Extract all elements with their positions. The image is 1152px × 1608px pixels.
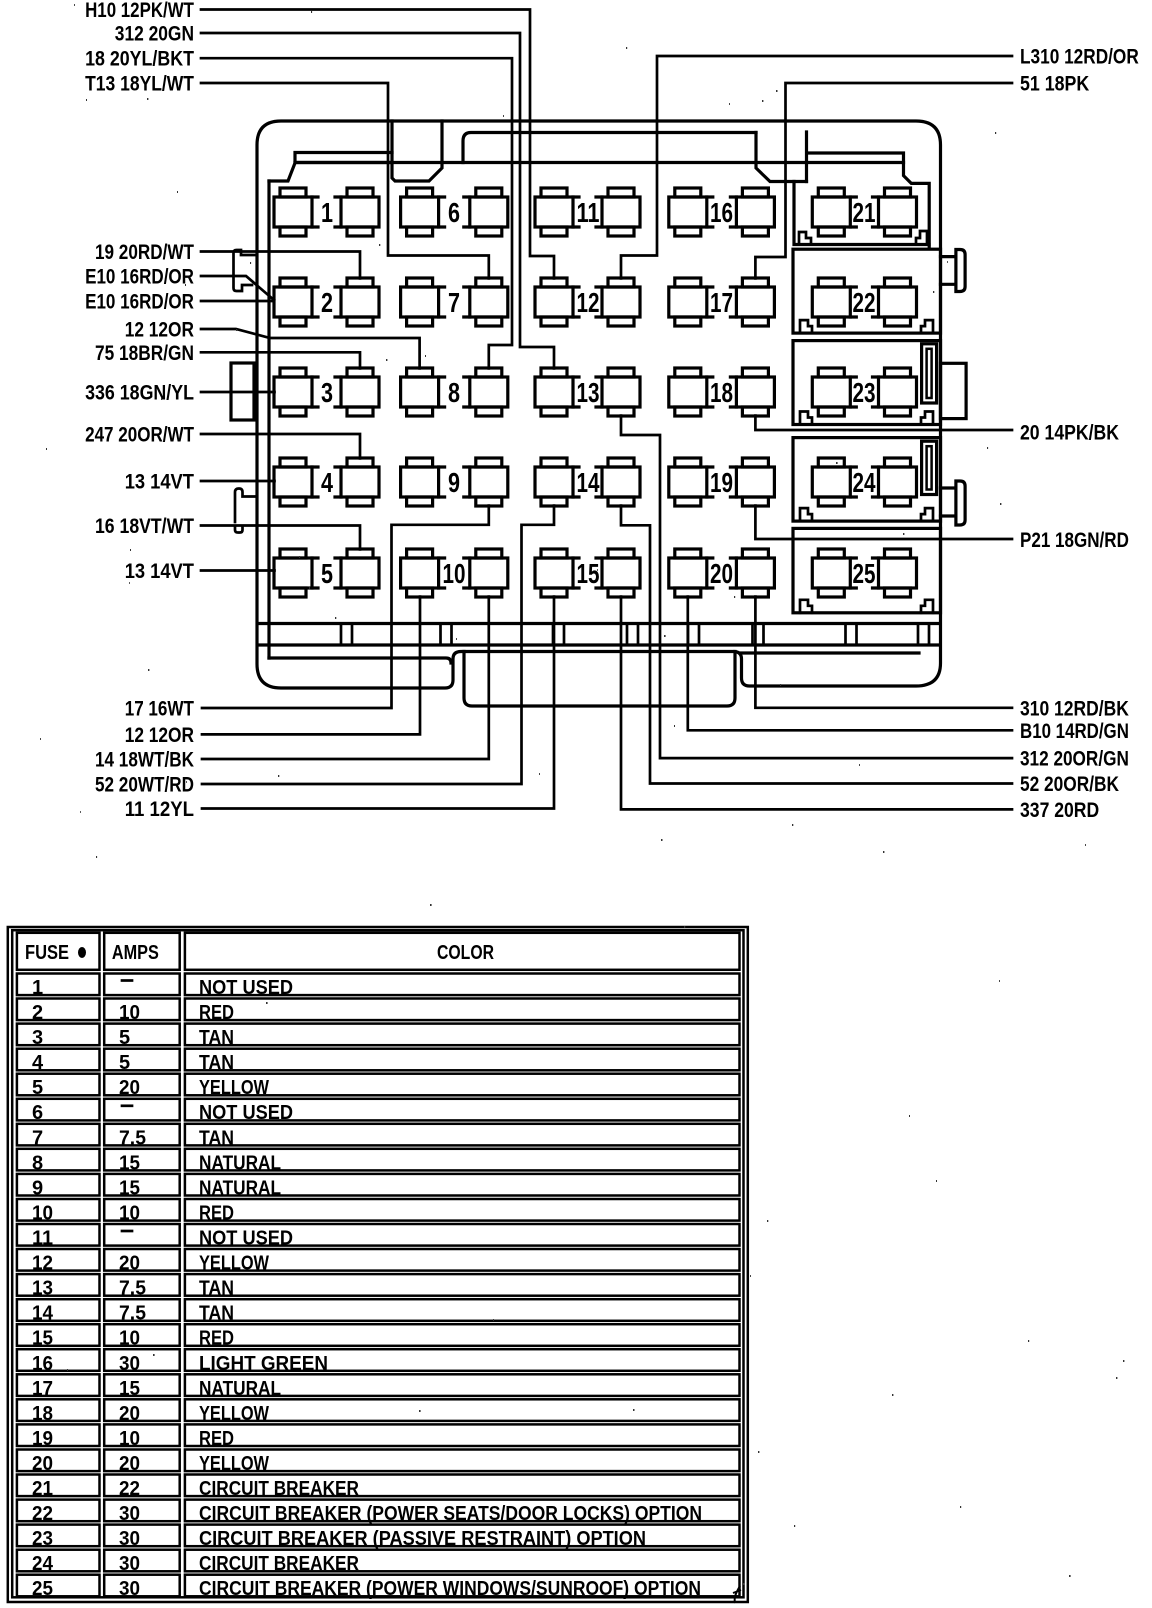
wire 18 20YL/BKT to fuse 8 right: [201, 58, 512, 368]
svg-text:18: 18: [32, 1403, 53, 1425]
svg-text:P21 18GN/RD: P21 18GN/RD: [1020, 529, 1129, 552]
fuse 9: [401, 458, 508, 506]
label 13 14VT (left, y=570.5): [125, 560, 194, 583]
bottom inner ledge left: [269, 658, 451, 663]
wire 52 20WT/RD from fuse 14 left: [202, 506, 554, 784]
svg-text:21: 21: [853, 197, 876, 228]
label 18 20YL/BKT (left, y=58.2): [85, 48, 194, 71]
svg-text:13 14VT: 13 14VT: [125, 471, 194, 494]
connector box at 336 label: [231, 363, 254, 420]
fuse 12: [535, 278, 640, 326]
svg-text:14: 14: [32, 1303, 54, 1325]
wire E10 16RD/OR upper to fuse 2: [201, 276, 274, 300]
svg-text:CIRCUIT BREAKER (POWER SEATS/D: CIRCUIT BREAKER (POWER SEATS/DOOR LOCKS)…: [199, 1503, 702, 1525]
svg-text:75 18BR/GN: 75 18BR/GN: [95, 342, 194, 365]
fuse 13: [535, 368, 640, 416]
svg-text:L310 12RD/OR: L310 12RD/OR: [1020, 46, 1139, 69]
label B10 14RD/GN (right, y=730.3): [1020, 720, 1129, 743]
side tab between breakers 21 and 22: [941, 250, 966, 292]
svg-text:CIRCUIT BREAKER: CIRCUIT BREAKER: [199, 1553, 359, 1575]
svg-text:18 20YL/BKT: 18 20YL/BKT: [85, 48, 194, 71]
svg-text:17 16WT: 17 16WT: [125, 698, 194, 721]
circuit breaker housing 22: [793, 249, 941, 333]
table row 1: - A, NOT USED: [17, 974, 740, 1000]
bottom mounting band: [259, 624, 940, 646]
table row 3: 5 A, TAN: [17, 1024, 740, 1050]
fuse 3: [274, 368, 379, 416]
svg-text:E10 16RD/OR: E10 16RD/OR: [85, 266, 194, 289]
svg-text:5: 5: [119, 1027, 130, 1049]
svg-text:23: 23: [32, 1528, 53, 1550]
svg-text:YELLOW: YELLOW: [199, 1403, 269, 1425]
svg-text:20: 20: [32, 1453, 53, 1475]
svg-text:21: 21: [32, 1478, 53, 1500]
fuse 10: [401, 549, 508, 597]
wire L310 12RD/OR to fuse 12 right: [621, 56, 1012, 278]
svg-text:30: 30: [119, 1528, 140, 1550]
svg-text:NOT USED: NOT USED: [199, 977, 293, 999]
fuse 5: [274, 549, 379, 597]
right key notch: [756, 133, 807, 182]
svg-text:TAN: TAN: [199, 1278, 234, 1300]
fuse 11: [535, 188, 640, 236]
table row 21: 22 A, CIRCUIT BREAKER: [17, 1475, 740, 1501]
wire 52 20OR/BK from fuse 14 right: [621, 506, 1012, 784]
svg-text:30: 30: [119, 1503, 140, 1525]
table row 13: 7.5 A, TAN: [17, 1274, 740, 1300]
svg-text:3: 3: [321, 377, 333, 408]
label 19 20RD/WT (left, y=251.5): [95, 241, 194, 264]
connector hook at 16 label: [235, 489, 256, 533]
wire 12 12OR to fuse 8 left: [201, 329, 420, 368]
label 336 18GN/YL (left, y=392): [85, 382, 194, 405]
svg-text:YELLOW: YELLOW: [199, 1077, 269, 1099]
inner slot rectangle of breaker 24: [922, 441, 937, 494]
inner slot rectangle of breaker 23: [922, 344, 937, 403]
svg-text:20: 20: [710, 558, 733, 589]
svg-text:15: 15: [32, 1328, 53, 1350]
svg-text:10: 10: [443, 558, 466, 589]
left key notch: [392, 121, 442, 181]
fuse 6: [401, 188, 508, 236]
label 12 12OR (left, y=329): [125, 319, 194, 342]
svg-text:4: 4: [32, 1052, 44, 1074]
svg-text:7: 7: [32, 1127, 43, 1149]
svg-text:5: 5: [119, 1052, 130, 1074]
label H10 12PK/WT (left, y=9.5): [85, 0, 194, 22]
connector clip at 19/E10 labels: [234, 250, 257, 291]
fuse 24: [812, 458, 916, 506]
svg-text:11: 11: [32, 1228, 53, 1250]
svg-text:7: 7: [448, 287, 460, 318]
svg-text:13: 13: [577, 377, 600, 408]
svg-text:17: 17: [710, 287, 733, 318]
svg-text:247 20OR/WT: 247 20OR/WT: [85, 424, 194, 447]
svg-text:NATURAL: NATURAL: [199, 1177, 281, 1199]
fuse 8: [401, 368, 508, 416]
svg-text:RED: RED: [199, 1328, 234, 1350]
svg-text:24: 24: [853, 467, 876, 498]
table header row: [17, 933, 740, 970]
wire 312 20OR/GN from fuse 13 right: [621, 416, 1012, 758]
fuse 16: [669, 188, 775, 236]
wire H10 12PK/WT to fuse 12 left: [201, 10, 554, 279]
svg-text:CIRCUIT BREAKER: CIRCUIT BREAKER: [199, 1478, 359, 1500]
svg-text:6: 6: [32, 1102, 43, 1124]
svg-text:1: 1: [321, 197, 333, 228]
table row 23: 30 A, CIRCUIT BREAKER (PASSIVE RESTRAINT) OPTION: [17, 1525, 740, 1551]
inner top band: [463, 133, 756, 163]
table row 12: 20 A, YELLOW: [17, 1249, 740, 1275]
svg-text:19: 19: [32, 1428, 53, 1450]
label 16 18VT/WT (left, y=525.5): [95, 515, 194, 538]
fuse 7: [401, 278, 508, 326]
circuit breaker housing 25: [793, 528, 941, 612]
svg-text:AMPS: AMPS: [112, 942, 159, 964]
fuse 1: [274, 188, 379, 236]
svg-text:11: 11: [577, 197, 600, 228]
svg-text:15: 15: [119, 1177, 140, 1199]
svg-text:TAN: TAN: [199, 1052, 234, 1074]
main top rail: [295, 163, 929, 249]
bottom inner ledge right: [742, 651, 920, 654]
wire 11 12YL from fuse 15 left: [202, 597, 554, 809]
svg-text:TAN: TAN: [199, 1027, 234, 1049]
svg-text:336 18GN/YL: 336 18GN/YL: [85, 382, 194, 405]
label 75 18BR/GN (left, y=352.3): [95, 342, 194, 365]
svg-text:20: 20: [119, 1453, 140, 1475]
table row 14: 7.5 A, TAN: [17, 1299, 740, 1325]
handwritten tick mark at table corner: [733, 1586, 741, 1603]
wire 19 20RD/WT to fuse 2 right: [201, 252, 360, 279]
svg-text:RED: RED: [199, 1002, 234, 1024]
svg-text:TAN: TAN: [199, 1127, 234, 1149]
svg-text:5: 5: [32, 1077, 43, 1099]
svg-text:NOT USED: NOT USED: [199, 1228, 293, 1250]
svg-text:2: 2: [32, 1002, 43, 1024]
wire P21 18GN/RD from fuse 19 right: [755, 506, 1012, 539]
circuit breaker housing 21 (hood): [794, 132, 929, 245]
svg-text:337 20RD: 337 20RD: [1020, 799, 1099, 822]
fuse 17: [669, 278, 775, 326]
fuse 19: [669, 458, 775, 506]
svg-text:FUSE: FUSE: [25, 942, 69, 964]
svg-text:52 20OR/BK: 52 20OR/BK: [1020, 773, 1119, 796]
svg-text:14 18WT/BK: 14 18WT/BK: [95, 749, 194, 772]
svg-text:20: 20: [119, 1077, 140, 1099]
svg-text:YELLOW: YELLOW: [199, 1453, 269, 1475]
svg-text:6: 6: [448, 197, 460, 228]
table row 20: 20 A, YELLOW: [17, 1450, 740, 1476]
svg-text:4: 4: [321, 467, 333, 498]
label 13 14VT (left, y=481): [125, 471, 194, 494]
svg-text:12: 12: [32, 1253, 53, 1275]
svg-text:COLOR: COLOR: [437, 942, 494, 964]
circuit breaker housing 24: [793, 438, 941, 521]
wire 12 12OR from fuse 10 left: [202, 597, 420, 735]
svg-text:9: 9: [448, 467, 460, 498]
svg-text:10: 10: [119, 1203, 140, 1225]
table row 6: - A, NOT USED: [17, 1099, 740, 1124]
fuse 22: [812, 278, 916, 326]
svg-text:30: 30: [119, 1578, 140, 1600]
svg-text:RED: RED: [199, 1428, 234, 1450]
svg-text:8: 8: [448, 377, 460, 408]
svg-text:20: 20: [119, 1253, 140, 1275]
table row 19: 10 A, RED: [17, 1424, 740, 1450]
svg-text:7.5: 7.5: [119, 1278, 146, 1300]
fuse 4: [274, 458, 379, 506]
label 52 20WT/RD (left, y=784): [95, 774, 194, 797]
svg-text:30: 30: [119, 1553, 140, 1575]
svg-text:22: 22: [119, 1478, 140, 1500]
fuse 2: [274, 278, 379, 326]
svg-text:17: 17: [32, 1378, 53, 1400]
table row 22: 30 A, CIRCUIT BREAKER (POWER SEATS/DOOR LOCKS) OPTION: [17, 1500, 740, 1526]
svg-text:10: 10: [119, 1002, 140, 1024]
svg-text:15: 15: [577, 558, 600, 589]
svg-text:25: 25: [32, 1578, 53, 1600]
wire 310 12RD/BK from fuse 20 right: [755, 597, 1012, 708]
wire B10 14RD/GN from fuse 20 left: [688, 597, 1012, 731]
svg-text:23: 23: [853, 377, 876, 408]
label 52 20OR/BK (right, y=783.5): [1020, 773, 1119, 796]
table row 24: 30 A, CIRCUIT BREAKER: [17, 1550, 740, 1576]
wire 16 18VT/WT to fuse 5 right: [201, 526, 360, 550]
svg-text:RED: RED: [199, 1203, 234, 1225]
top collar (left): [269, 153, 392, 182]
svg-text:8: 8: [32, 1152, 43, 1174]
svg-text:NOT USED: NOT USED: [199, 1102, 293, 1124]
svg-text:CIRCUIT BREAKER (POWER WINDOWS: CIRCUIT BREAKER (POWER WINDOWS/SUNROOF) …: [199, 1578, 701, 1600]
table row 18: 20 A, YELLOW: [17, 1399, 740, 1425]
svg-text:22: 22: [32, 1503, 53, 1525]
svg-text:13 14VT: 13 14VT: [125, 560, 194, 583]
wire 336 18GN/YL to fuse 3 left: [201, 391, 275, 394]
svg-text:CIRCUIT BREAKER (PASSIVE RESTR: CIRCUIT BREAKER (PASSIVE RESTRAINT) OPTI…: [199, 1528, 646, 1550]
svg-text:10: 10: [32, 1203, 53, 1225]
label 312 20OR/GN (right, y=758.1): [1020, 748, 1129, 771]
label E10 16RD/OR (left, y=301): [85, 291, 194, 314]
svg-text:312 20GN: 312 20GN: [115, 23, 194, 46]
wire 13 14VT lower to fuse 5 left: [201, 569, 275, 572]
svg-text:11 12YL: 11 12YL: [125, 798, 194, 821]
fuse 20: [669, 549, 775, 597]
label 17 16WT (left, y=708): [125, 698, 194, 721]
label 20 14PK/BK (right, y=432): [1020, 422, 1119, 445]
svg-text:16: 16: [32, 1353, 53, 1375]
svg-text:19: 19: [710, 467, 733, 498]
wire 17 16WT from fuse 9 right: [202, 506, 489, 708]
svg-text:B10 14RD/GN: B10 14RD/GN: [1020, 720, 1129, 743]
svg-text:10: 10: [119, 1328, 140, 1350]
wire 247 20OR/WT to fuse 4 right: [201, 434, 360, 458]
svg-text:12 12OR: 12 12OR: [125, 724, 194, 747]
svg-text:15: 15: [119, 1378, 140, 1400]
table row 11: - A, NOT USED: [17, 1224, 740, 1250]
label 247 20OR/WT (left, y=434): [85, 424, 194, 447]
label T13 18YL/WT (left, y=83): [85, 73, 194, 96]
svg-text:310 12RD/BK: 310 12RD/BK: [1020, 697, 1129, 720]
svg-text:52 20WT/RD: 52 20WT/RD: [95, 774, 194, 797]
svg-text:3: 3: [32, 1027, 43, 1049]
svg-text:7.5: 7.5: [119, 1127, 146, 1149]
wire E10 16RD/OR lower to fuse 2: [201, 300, 274, 303]
fuse 21: [812, 188, 916, 236]
wire T13 18YL/WT to fuse 7 right: [201, 83, 489, 278]
svg-text:312 20OR/GN: 312 20OR/GN: [1020, 748, 1129, 771]
svg-text:T13 18YL/WT: T13 18YL/WT: [85, 73, 194, 96]
svg-text:NATURAL: NATURAL: [199, 1152, 281, 1174]
svg-text:12 12OR: 12 12OR: [125, 319, 194, 342]
svg-text:24: 24: [32, 1553, 54, 1575]
svg-text:13: 13: [32, 1278, 53, 1300]
wire 337 20RD from fuse 15 right: [621, 597, 1012, 810]
label 51 18PK (right, y=83): [1020, 73, 1089, 96]
table row 16: 30 A, LIGHT GREEN: [17, 1349, 740, 1375]
svg-text:20 14PK/BK: 20 14PK/BK: [1020, 422, 1119, 445]
svg-text:12: 12: [577, 287, 600, 318]
table row 17: 15 A, NATURAL: [17, 1374, 740, 1400]
side rectangular tab at breaker 23: [941, 363, 967, 418]
svg-text:10: 10: [119, 1428, 140, 1450]
label 337 20RD (right, y=809.4): [1020, 799, 1099, 822]
label 11 12YL (left, y=808.5): [125, 798, 194, 821]
svg-text:51 18PK: 51 18PK: [1020, 73, 1089, 96]
fuse 18: [669, 368, 775, 416]
svg-text:2: 2: [321, 287, 333, 318]
table row 8: 15 A, NATURAL: [17, 1149, 740, 1175]
svg-text:5: 5: [321, 558, 333, 589]
label E10 16RD/OR (left, y=276): [85, 266, 194, 289]
svg-text:16: 16: [710, 197, 733, 228]
fuse 15: [535, 549, 640, 597]
side tab at breaker 24: [941, 481, 966, 525]
table row 25: 30 A, CIRCUIT BREAKER (POWER WINDOWS/SUNROOF) OPTION: [17, 1575, 740, 1601]
label P21 18GN/RD (right, y=539.5): [1020, 529, 1129, 552]
svg-text:30: 30: [119, 1353, 140, 1375]
fuse 25: [812, 549, 916, 597]
svg-text:25: 25: [853, 558, 876, 589]
circuit breaker housing 23: [793, 341, 941, 425]
fuse box inner left wall: [267, 181, 270, 658]
svg-text:9: 9: [32, 1177, 43, 1199]
svg-text:20: 20: [119, 1403, 140, 1425]
svg-text:E10 16RD/OR: E10 16RD/OR: [85, 291, 194, 314]
table row 2: 10 A, RED: [17, 999, 740, 1025]
svg-text:1: 1: [32, 977, 43, 999]
table row 10: 10 A, RED: [17, 1199, 740, 1225]
table row 5: 20 A, YELLOW: [17, 1074, 740, 1100]
svg-text:LIGHT GREEN: LIGHT GREEN: [199, 1353, 328, 1375]
wire 20 14PK/BK from fuse 18 right: [755, 416, 1012, 430]
svg-text:16 18VT/WT: 16 18VT/WT: [95, 515, 194, 538]
label 12 12OR (left, y=734.4): [125, 724, 194, 747]
svg-text:NATURAL: NATURAL: [199, 1378, 281, 1400]
label 14 18WT/BK (left, y=759): [95, 749, 194, 772]
fuse table outer border: [8, 927, 748, 1602]
bottom center tab: [464, 652, 735, 707]
table row 9: 15 A, NATURAL: [17, 1174, 740, 1200]
fuse 23: [812, 368, 916, 416]
wire 312 20GN to fuse 13 left: [201, 33, 554, 368]
table row 4: 5 A, TAN: [17, 1049, 740, 1075]
svg-text:18: 18: [710, 377, 733, 408]
svg-text:19 20RD/WT: 19 20RD/WT: [95, 241, 194, 264]
table row 15: 10 A, RED: [17, 1324, 740, 1350]
svg-text:TAN: TAN: [199, 1303, 234, 1325]
svg-text:22: 22: [853, 287, 876, 318]
svg-text:14: 14: [577, 467, 600, 498]
wire 14 18WT/BK from fuse 10 right: [202, 597, 489, 759]
wire 75 18BR/GN to fuse 3 right: [201, 352, 360, 368]
fuse 14: [535, 458, 640, 506]
fuse box outer shell: [257, 121, 941, 688]
svg-text:H10 12PK/WT: H10 12PK/WT: [85, 0, 194, 22]
label 312 20GN (left, y=33): [115, 23, 194, 46]
svg-text:15: 15: [119, 1152, 140, 1174]
svg-text:7.5: 7.5: [119, 1303, 146, 1325]
table row 7: 7.5 A, TAN: [17, 1124, 740, 1150]
wire 13 14VT upper to fuse 4 left: [201, 480, 275, 483]
svg-text:YELLOW: YELLOW: [199, 1253, 269, 1275]
label L310 12RD/OR (right, y=56): [1020, 46, 1139, 69]
wire 51 18PK to fuse 17 right: [755, 83, 1012, 278]
label 310 12RD/BK (right, y=707.8): [1020, 697, 1129, 720]
